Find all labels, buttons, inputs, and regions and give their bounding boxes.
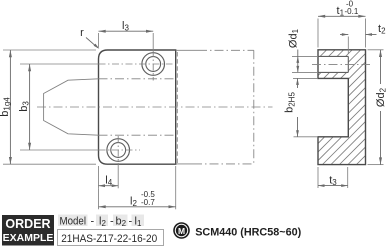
material note (195, 227, 301, 239)
dimension t2 extension (347, 37, 349, 55)
label b2H5 (284, 92, 297, 113)
bore end wall (347, 56, 349, 72)
phantom body left hidden edge (176, 52, 178, 163)
phantom body right edge (253, 50, 255, 164)
label d2 (375, 87, 388, 107)
label l4 (105, 175, 112, 188)
dimension d1 line (296, 50, 299, 73)
svg-text:-: - (91, 215, 95, 227)
label t2 (378, 23, 386, 36)
svg-text:M: M (178, 226, 185, 236)
dimension l3 extension left (98, 33, 100, 48)
dimension t2 line right (366, 33, 377, 36)
dimension t3 extension left (317, 167, 319, 188)
bottom hole vertical centerline (117, 136, 119, 188)
dimension b2 line (296, 78, 299, 136)
svg-text:-0.7: -0.7 (141, 198, 155, 207)
dimension d2 extension bottom (368, 164, 384, 166)
model code line text (60, 215, 142, 228)
label r (80, 27, 84, 39)
svg-text:b1g4: b1g4 (0, 97, 12, 117)
dimension d2 line (379, 50, 382, 165)
dimension t1 extension left (317, 19, 319, 48)
svg-text:r: r (80, 27, 84, 39)
top hole vertical centerline (152, 33, 154, 81)
dimension t3 extension right (347, 167, 349, 188)
svg-text:SCM440 (HRC58~60): SCM440 (HRC58~60) (195, 227, 301, 239)
dimension b2 extension bottom (294, 136, 319, 138)
leader r (86, 38, 99, 49)
dimension b1g4 extension bottom (3, 163, 96, 165)
dimension d2 extension top (368, 49, 384, 51)
dimension t2 line left (340, 33, 348, 36)
top mounting hole outer (142, 53, 165, 76)
model code line highlights (58, 215, 144, 227)
bottom hole horizontal centerline (20, 149, 140, 151)
bottom mounting hole inner (111, 143, 126, 158)
label l3 (122, 20, 129, 33)
dimension l2 line (99, 205, 176, 208)
bore centerline (312, 63, 370, 65)
dimension d1 extension bottom (292, 71, 318, 73)
front view plate outline (99, 50, 176, 164)
dimension b1g4 extension top (3, 49, 96, 51)
slot side profile (thin hexagon) (44, 79, 99, 135)
label l2 with tolerance (130, 190, 155, 208)
phantom body bottom edge (176, 163, 254, 165)
bottom mounting hole outer (107, 139, 130, 162)
svg-text:Model: Model (60, 215, 87, 227)
svg-text:-: - (129, 215, 133, 227)
dimension b2 extension top (293, 77, 318, 79)
dimension l4 extension left (98, 166, 100, 188)
dimension t3 line (318, 184, 348, 187)
dimension l4 line (99, 184, 119, 187)
top mounting hole inner (146, 57, 161, 72)
dimension t1 line (318, 15, 366, 18)
dimension l3 line (99, 30, 154, 33)
label b3 (18, 101, 31, 112)
section hatching (198, 44, 388, 170)
svg-text:EXAMPLE: EXAMPLE (3, 232, 54, 244)
label t1 with tolerance (337, 0, 359, 18)
bore bottom edge (318, 71, 348, 73)
dimension l2 extension right (175, 166, 177, 209)
svg-text:-0.1: -0.1 (345, 7, 359, 16)
slot hidden line bottom (99, 134, 176, 136)
main centerline (37, 106, 273, 108)
dimension b3 line (28, 64, 31, 150)
dimension t1 extension right (365, 19, 367, 48)
dimension l2 extension left (98, 188, 100, 209)
order example black box (2, 215, 54, 246)
slot hidden line top (99, 78, 176, 80)
label t3 (329, 174, 337, 187)
label d1 (287, 28, 300, 48)
svg-text:21HAS-Z17-22-16-20: 21HAS-Z17-22-16-20 (61, 233, 157, 245)
dimension b1g4 line (9, 50, 12, 164)
M logo (173, 222, 190, 239)
section outline (318, 50, 366, 165)
dimension d1 extension top (292, 55, 318, 57)
top hole horizontal centerline (20, 63, 173, 65)
bore top edge (318, 55, 348, 57)
svg-text:ORDER: ORDER (5, 217, 50, 231)
order number box (58, 230, 164, 246)
phantom body top edge (176, 49, 254, 51)
svg-text:-: - (110, 215, 114, 227)
label b1g4 (0, 97, 12, 117)
